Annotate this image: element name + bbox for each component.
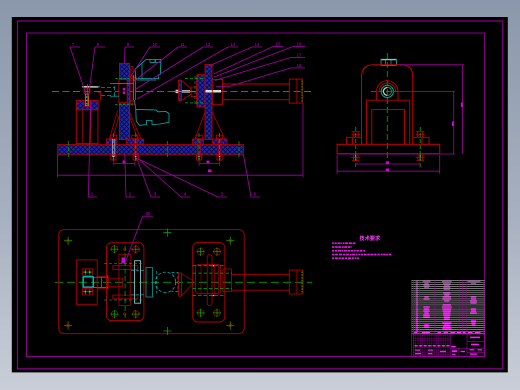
item 18 (216, 63, 305, 87)
rboss circle 3 (196, 309, 204, 317)
boss circle 1 (110, 245, 118, 253)
left base bolt (351, 127, 360, 167)
item 9 (125, 42, 135, 64)
item 13 (137, 42, 238, 99)
left box (76, 260, 97, 304)
cyan stub right of left clamp (101, 86, 115, 96)
cyan workpiece side lines (134, 75, 136, 100)
base plate (58, 145, 244, 155)
middle column (120, 63, 130, 139)
note line 4 (332, 254, 335, 256)
left box top bolt group (83, 269, 93, 276)
boss centerline (124, 246, 126, 318)
phantom cyan bar (146, 268, 152, 298)
parts list left red rule (412, 280, 414, 333)
corner cross BL (64, 321, 72, 329)
vertical centerline (386, 53, 388, 160)
item 15 (214, 42, 284, 75)
rboss circle 4 (213, 309, 221, 317)
phantom dashes across boss (104, 264, 142, 301)
svg-text:20: 20 (146, 211, 151, 216)
left clamp screw head (84, 89, 90, 94)
right bolt-pair dim (198, 160, 200, 167)
shoulder line (367, 99, 410, 101)
white pin through column (206, 90, 222, 93)
middle column slot box (119, 80, 127, 103)
right base bolt (416, 127, 425, 167)
corner cross TL (64, 237, 72, 245)
svg-text:15: 15 (276, 42, 281, 47)
item 8 (89, 42, 106, 96)
item 11 (133, 42, 187, 82)
bright green axis segment (174, 91, 220, 93)
left box bottom bolt group (83, 288, 93, 295)
note line 3 (332, 250, 334, 252)
clamp jaw verticals (131, 67, 133, 105)
hub bracket (191, 87, 196, 97)
item 16 (214, 42, 305, 78)
left clamp screw (orange) (85, 94, 88, 106)
right column (205, 64, 212, 139)
thread dashes left of block (195, 77, 197, 106)
parts list row lines (412, 280, 485, 333)
corner cross TR (226, 237, 234, 245)
rboss circle 2 (213, 248, 221, 256)
left clamp step (98, 93, 100, 101)
shaft (223, 84, 290, 100)
rboss circle 1 (196, 248, 204, 256)
svg-text:13: 13 (231, 42, 236, 47)
left shaft lines (97, 276, 108, 288)
parts list column rules (412, 280, 484, 334)
boss outer arc (377, 81, 398, 92)
clamp tip upper (130, 77, 135, 80)
right column gussets (195, 112, 225, 139)
parts list header row (414, 332, 480, 333)
left ear nut (352, 132, 361, 138)
parts list text (416, 281, 480, 331)
item 5 (140, 160, 228, 198)
left support column (76, 110, 98, 144)
clamp block (197, 75, 207, 107)
svg-text:14: 14 (255, 42, 260, 47)
title box fine grid (413, 334, 450, 357)
note line 2 (332, 246, 334, 248)
svg-text:技术要求: 技术要求 (360, 235, 382, 242)
leader to label 20 (126, 216, 143, 261)
base slab (337, 144, 440, 153)
mechanism body (196, 264, 221, 293)
middle gusset right (129, 110, 142, 139)
title box main partitions (413, 334, 484, 357)
overall length dim (57, 155, 59, 178)
title box outline (412, 334, 485, 357)
bolt B3 (196, 133, 202, 162)
slab bottom magenta line (337, 153, 455, 155)
rboss column bar (207, 255, 212, 306)
clamp bars (113, 266, 138, 270)
right pads (193, 139, 204, 145)
dim extension from dome top (399, 64, 464, 66)
boss circle 3 (110, 310, 118, 318)
top bolt (cyan) (381, 59, 396, 65)
bottom mid cross (163, 327, 171, 335)
cyan workpiece big end (136, 110, 169, 126)
left ear (347, 137, 362, 144)
title box text blobs (415, 337, 482, 355)
bolt spacing dim (356, 163, 421, 165)
cone hub white (182, 90, 190, 92)
slot magenta marks (123, 88, 125, 91)
item 6 (244, 155, 261, 197)
phantom dashed circle (155, 272, 175, 292)
left bolt centerline (67, 141, 69, 157)
plan shaft (231, 274, 289, 290)
top mid cross (163, 229, 171, 237)
bolt B4 (217, 133, 223, 162)
lower pin centerline (115, 104, 133, 106)
phantom dashed lines (156, 271, 158, 294)
magenta pin (122, 258, 126, 264)
vertical dim outer (462, 65, 464, 154)
mid verticals (367, 100, 410, 144)
inner drawing frame (27, 33, 485, 357)
cyan line upper (110, 83, 133, 85)
vertical dim inner (453, 91, 455, 154)
svg-text:12: 12 (206, 42, 211, 47)
svg-text:16: 16 (297, 42, 302, 47)
cone flange (179, 80, 182, 101)
svg-text:17: 17 (297, 53, 302, 58)
cone body (182, 80, 192, 100)
corner cross BR (226, 321, 234, 329)
arch body (362, 65, 413, 145)
left bolt-pair dim (113, 160, 115, 167)
block centerline lower (185, 102, 215, 104)
item 7 (70, 42, 86, 94)
middle gusset left (109, 110, 119, 139)
item 17 (215, 53, 305, 81)
block centerline upper (185, 78, 215, 80)
boss cylinder sides (377, 91, 398, 100)
mid bolt centerline (166, 141, 168, 157)
boss inner arc (379, 83, 395, 91)
bore horizontal centerline (371, 90, 404, 92)
slide plate (135, 261, 141, 304)
clamp screw centerline vertical (194, 76, 196, 106)
right ear (413, 137, 429, 144)
overall width dim (337, 155, 440, 174)
left boss (107, 243, 144, 321)
cyan line lower (110, 95, 119, 97)
dim extension from bore center (392, 90, 455, 92)
left box cyan square (83, 277, 93, 287)
plan cone body (182, 274, 193, 296)
svg-text:18: 18 (297, 63, 302, 68)
right ear nut (416, 132, 425, 138)
left clamp white blade (82, 86, 101, 88)
cap screw hole (84, 100, 90, 106)
boss center clamp body (119, 254, 130, 305)
upper pin centerline (115, 77, 132, 79)
inner slot rect (372, 109, 405, 144)
right bracket steps (212, 79, 229, 104)
bore circle cyan (381, 85, 393, 97)
svg-text:10: 10 (153, 42, 158, 47)
boss circle 4 (132, 310, 140, 318)
item 4 (138, 159, 190, 198)
right bolt centerline (238, 141, 240, 157)
bolt B2 (132, 133, 139, 162)
item 10 (131, 42, 160, 76)
plan cone flange (179, 273, 182, 296)
base plate outline (59, 230, 245, 334)
mechanism green rows (193, 266, 233, 296)
clamp tip lower (130, 101, 135, 105)
mechanism right piece (223, 269, 231, 292)
cyan workpiece small head (135, 60, 161, 79)
note line 5 (332, 257, 334, 259)
right boss (193, 243, 225, 322)
item 12 (135, 42, 214, 90)
item 3 (137, 158, 161, 198)
item 2 (125, 155, 135, 197)
shaft end cap (289, 79, 302, 103)
boss circle 2 (132, 245, 140, 253)
item 14 (209, 42, 262, 66)
middle pads (106, 139, 117, 145)
svg-text:11: 11 (180, 42, 185, 47)
left support cap (76, 100, 98, 109)
note line 1 (332, 242, 334, 244)
bolt B1 (110, 133, 116, 162)
thread marks end cap (301, 81, 303, 103)
cone nut white block (176, 90, 180, 94)
main horizontal centerline (52, 91, 312, 93)
plan end cap (289, 270, 303, 294)
small diamonds (123, 248, 126, 251)
bore inner circle (383, 87, 391, 95)
screw centerline (86, 84, 88, 106)
item 1 (88, 101, 97, 197)
cyan channel (93, 275, 108, 290)
plan centerline (55, 281, 312, 283)
